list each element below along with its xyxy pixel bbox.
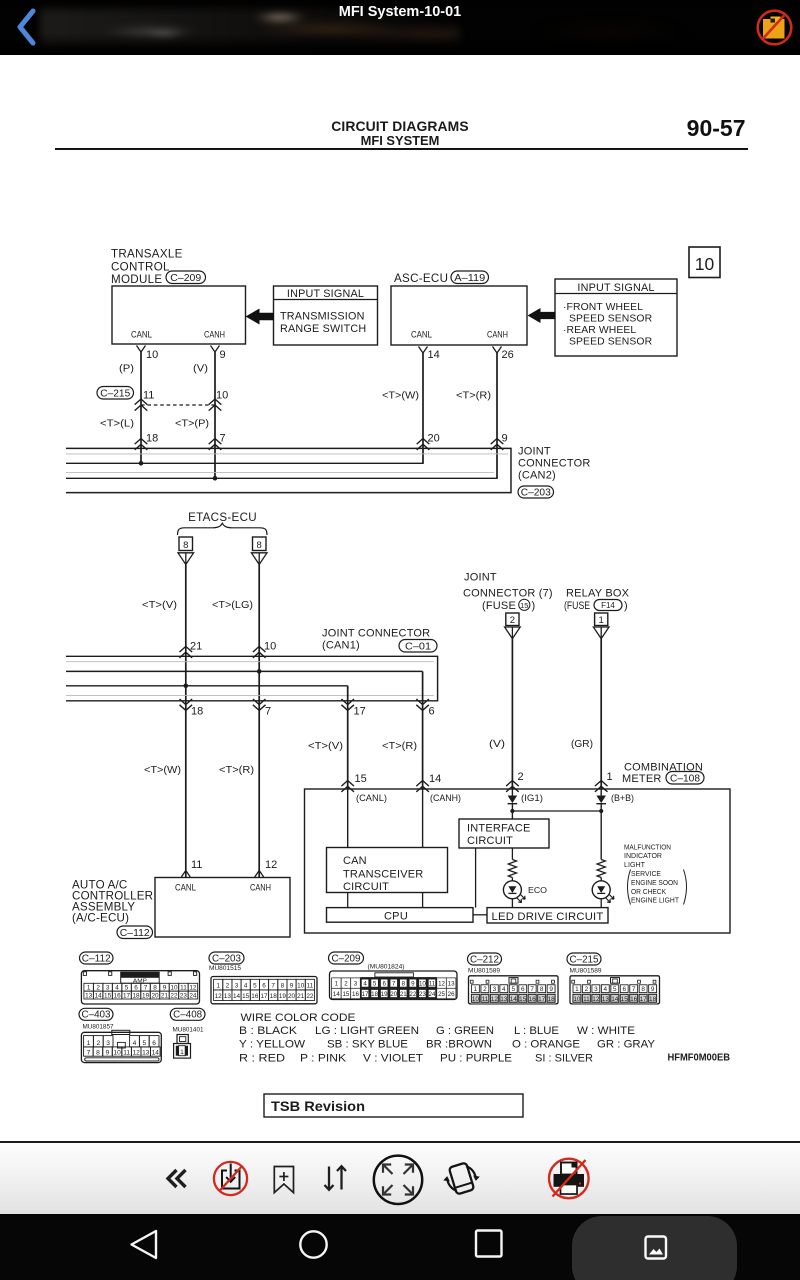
svg-text:CONNECTOR: CONNECTOR — [518, 458, 591, 470]
black arrow from TRANSMISSION RANGE SWITCH to TCM — [246, 309, 275, 325]
svg-text:1: 1 — [599, 615, 604, 626]
svg-text:JOINT: JOINT — [464, 572, 497, 584]
svg-text:1: 1 — [87, 1040, 91, 1047]
svg-text:6: 6 — [429, 705, 435, 717]
svg-text:13: 13 — [602, 996, 610, 1003]
svg-text:16: 16 — [114, 992, 122, 999]
svg-text:19: 19 — [142, 992, 150, 999]
relay box terminal 1 — [595, 613, 608, 626]
resistor (ECO led) — [508, 860, 516, 878]
svg-text:1: 1 — [474, 986, 478, 993]
svg-text:21: 21 — [400, 991, 407, 998]
svg-text:C–408: C–408 — [173, 1010, 202, 1021]
svg-text:20: 20 — [390, 991, 397, 998]
svg-text:8: 8 — [641, 986, 645, 993]
svg-text:<T>(R): <T>(R) — [219, 765, 254, 776]
svg-text:C–203: C–203 — [521, 487, 551, 498]
svg-text:12: 12 — [265, 859, 277, 871]
CPU box — [327, 908, 474, 923]
svg-text:<T>(LG): <T>(LG) — [212, 600, 253, 611]
svg-text:2: 2 — [226, 982, 230, 989]
screenshot pill button — [572, 1216, 737, 1280]
svg-text:14: 14 — [333, 991, 340, 998]
svg-text:6: 6 — [382, 981, 386, 988]
CAN1 bus line 2 (to comb meter CANH) — [66, 670, 423, 672]
svg-text:<T>(L): <T>(L) — [100, 419, 134, 430]
twisted pair marks above CAN2 bus (TCM wires) — [135, 439, 148, 445]
svg-text:26: 26 — [448, 991, 455, 998]
svg-text:<T>(W): <T>(W) — [382, 390, 419, 401]
svg-text:(FUSE: (FUSE — [564, 600, 590, 612]
svg-text:CONNECTOR (7): CONNECTOR (7) — [463, 588, 553, 600]
no-edit folder icon (top right) — [750, 2, 798, 50]
svg-text:18: 18 — [371, 991, 378, 998]
svg-text:MU801857: MU801857 — [83, 1024, 115, 1031]
svg-text:22: 22 — [306, 993, 314, 1000]
svg-text:): ) — [624, 600, 628, 612]
dashed pair line — [141, 404, 215, 406]
svg-text:C–209: C–209 — [170, 273, 201, 284]
svg-text:<T>(V): <T>(V) — [308, 741, 343, 752]
svg-text:1: 1 — [335, 981, 339, 988]
svg-text:MU801589: MU801589 — [570, 968, 603, 975]
svg-text:CAN: CAN — [343, 855, 367, 867]
svg-text:10: 10 — [170, 985, 178, 992]
wire to MIL LED — [600, 878, 602, 881]
svg-text:10: 10 — [472, 996, 480, 1003]
svg-text:CANL: CANL — [175, 883, 196, 894]
svg-text:14: 14 — [233, 993, 241, 1000]
svg-text:10: 10 — [146, 349, 158, 361]
svg-text:21: 21 — [297, 993, 305, 1000]
svg-text:4: 4 — [502, 986, 506, 993]
svg-text:PU : PURPLE: PU : PURPLE — [440, 1053, 512, 1065]
svg-text:<T>(W): <T>(W) — [144, 765, 181, 776]
svg-text:MODULE: MODULE — [111, 273, 162, 286]
svg-text:MU801589: MU801589 — [468, 968, 501, 975]
svg-text:7: 7 — [87, 1050, 91, 1057]
svg-text:17: 17 — [538, 996, 546, 1003]
svg-text:·REAR WHEEL: ·REAR WHEEL — [563, 325, 636, 336]
connector C-203 label — [209, 952, 244, 964]
svg-text:18: 18 — [146, 432, 158, 444]
svg-text:8: 8 — [402, 981, 406, 988]
svg-text:14: 14 — [152, 1050, 160, 1057]
icon: scroll up/down — [325, 1166, 347, 1190]
connector C-403 drawing — [81, 1032, 161, 1062]
svg-text:(FUSE: (FUSE — [482, 600, 516, 612]
app bar title — [0, 4, 800, 20]
svg-text:8: 8 — [183, 540, 188, 551]
connector label C-01 — [399, 640, 437, 653]
svg-text:CIRCUIT: CIRCUIT — [343, 881, 389, 893]
svg-text:4: 4 — [244, 982, 248, 989]
svg-text:F14: F14 — [601, 601, 615, 610]
svg-text:16: 16 — [352, 991, 359, 998]
svg-text:(A/C-ECU): (A/C-ECU) — [72, 912, 129, 925]
svg-text:2: 2 — [96, 1040, 100, 1047]
svg-text:9: 9 — [651, 986, 655, 993]
svg-text:11: 11 — [307, 982, 314, 989]
wire to ECO LED — [511, 878, 513, 881]
svg-text:(V): (V) — [489, 739, 505, 750]
svg-text:3: 3 — [106, 985, 110, 992]
app bar back chevron — [0, 0, 60, 55]
INTERFACE CIRCUIT box — [459, 819, 549, 848]
wire IG1 to interface circuit — [511, 804, 513, 819]
svg-text:JOINT: JOINT — [518, 446, 551, 458]
svg-text:INDICATOR: INDICATOR — [624, 851, 662, 860]
svg-text:(CANH): (CANH) — [430, 793, 461, 803]
svg-text:(CAN1): (CAN1) — [322, 640, 360, 652]
svg-text:WIRE COLOR CODE: WIRE COLOR CODE — [241, 1012, 356, 1024]
svg-text:V : VIOLET: V : VIOLET — [363, 1053, 423, 1065]
connector label C-203 — [518, 486, 554, 498]
svg-text:16: 16 — [529, 996, 537, 1003]
CAN2 bus line 2 (to ASC CANL) — [66, 462, 424, 464]
svg-text:(MU801824): (MU801824) — [368, 964, 405, 971]
svg-text:MU801515: MU801515 — [209, 965, 242, 972]
svg-text:INTERFACE: INTERFACE — [467, 823, 531, 835]
svg-text:1: 1 — [607, 771, 613, 783]
svg-text:18: 18 — [132, 992, 140, 999]
svg-text:25: 25 — [438, 991, 445, 998]
svg-text:(GR): (GR) — [571, 739, 593, 750]
svg-text:RANGE SWITCH: RANGE SWITCH — [280, 323, 366, 335]
svg-text:INPUT SIGNAL: INPUT SIGNAL — [577, 282, 654, 294]
svg-text:17: 17 — [640, 996, 648, 1003]
svg-text:9: 9 — [411, 981, 415, 988]
icon: add bookmark — [274, 1167, 293, 1193]
svg-text:7: 7 — [632, 986, 636, 993]
svg-text:A–119: A–119 — [454, 273, 485, 284]
svg-text:19: 19 — [279, 993, 287, 1000]
svg-text:20: 20 — [288, 993, 296, 1000]
wire: TCM CANL pin 10 — [137, 346, 146, 353]
wire ECO LED to LED drive — [511, 899, 513, 908]
svg-text:(CANL): (CANL) — [356, 793, 387, 803]
TSB Revision box — [264, 1094, 523, 1117]
svg-text:ETACS-ECU: ETACS-ECU — [188, 511, 257, 524]
svg-text:6: 6 — [622, 986, 626, 993]
svg-text:10: 10 — [264, 640, 276, 652]
svg-text:5: 5 — [125, 985, 129, 992]
svg-text:2: 2 — [518, 771, 524, 783]
svg-text:17: 17 — [260, 993, 268, 1000]
wire: ASC CANH pin 26 — [493, 347, 502, 354]
svg-text:23: 23 — [180, 992, 188, 999]
connector C-112 label — [80, 952, 114, 964]
svg-text:11: 11 — [191, 859, 202, 871]
connector C-403 label — [79, 1008, 113, 1020]
svg-text:15: 15 — [342, 991, 349, 998]
wire B+B down — [600, 804, 602, 860]
icon: print disabled — [549, 1159, 589, 1199]
svg-text:3: 3 — [493, 986, 497, 993]
svg-text:3: 3 — [106, 1040, 110, 1047]
svg-text:23: 23 — [419, 991, 426, 998]
svg-text:C–212: C–212 — [470, 954, 499, 965]
svg-text:5: 5 — [373, 981, 377, 988]
connector label C-112 — [117, 926, 153, 939]
nav back triangle — [132, 1231, 157, 1258]
svg-text:G : GREEN: G : GREEN — [436, 1025, 494, 1037]
junction: ETACS CANH wire to bus line2 — [257, 669, 262, 674]
svg-text:13: 13 — [142, 1050, 150, 1057]
svg-text:19: 19 — [381, 991, 388, 998]
svg-text:16: 16 — [251, 993, 259, 1000]
svg-text:21: 21 — [161, 992, 169, 999]
wire: fuse 15 to combination meter IG1 — [511, 639, 513, 789]
svg-text:24: 24 — [429, 991, 436, 998]
LED DRIVE CIRCUIT box — [487, 908, 608, 923]
page reference box 10 — [689, 247, 720, 278]
svg-text:ENGINE SOON: ENGINE SOON — [631, 878, 678, 887]
svg-text:<T>(R): <T>(R) — [382, 741, 417, 752]
svg-text:O : ORANGE: O : ORANGE — [512, 1039, 580, 1051]
svg-text:18: 18 — [270, 993, 278, 1000]
svg-text:4: 4 — [115, 985, 119, 992]
svg-text:14: 14 — [611, 996, 619, 1003]
connector C-215 drawing — [570, 976, 660, 1004]
svg-text:P : PINK: P : PINK — [300, 1053, 347, 1065]
svg-text:9: 9 — [220, 349, 226, 361]
svg-text:2: 2 — [585, 986, 589, 993]
svg-text:11: 11 — [429, 981, 436, 988]
svg-text:C–209: C–209 — [332, 953, 361, 964]
svg-text:5: 5 — [613, 986, 617, 993]
svg-text:15: 15 — [520, 601, 528, 610]
svg-text:20: 20 — [428, 432, 440, 444]
svg-text:26: 26 — [502, 349, 514, 361]
svg-text:ASC-ECU: ASC-ECU — [394, 272, 448, 285]
svg-text:6: 6 — [152, 1040, 156, 1047]
icon: fit/expand — [374, 1156, 422, 1204]
svg-text:2: 2 — [510, 615, 515, 626]
svg-text:14: 14 — [428, 349, 440, 361]
svg-text:10: 10 — [113, 1050, 121, 1057]
wire: TCM CANH pin 9 — [211, 346, 220, 353]
svg-text:5: 5 — [142, 1040, 146, 1047]
wire CPU to LED drive — [473, 914, 487, 916]
svg-text:6: 6 — [134, 985, 138, 992]
svg-text:4: 4 — [133, 1040, 137, 1047]
connector C-408 label — [170, 1008, 205, 1020]
ETACS terminal 8 (right) — [253, 537, 267, 551]
svg-text:8: 8 — [281, 982, 285, 989]
wire: ETACS CANH down to A/C ECU (net CAN1-H) — [258, 565, 260, 878]
connector C-212 label — [468, 953, 502, 965]
svg-text:3: 3 — [594, 986, 598, 993]
svg-text:11: 11 — [123, 1050, 130, 1057]
TCM box (transaxle control module) U-TCM — [112, 286, 246, 344]
svg-text:22: 22 — [170, 992, 178, 999]
svg-text:22: 22 — [409, 991, 416, 998]
junction: TCM CANH to bus — [213, 476, 218, 481]
svg-text:13: 13 — [500, 996, 508, 1003]
svg-text:5: 5 — [511, 986, 515, 993]
svg-text:(CAN2): (CAN2) — [518, 470, 556, 482]
svg-text:BR :BROWN: BR :BROWN — [426, 1039, 492, 1051]
svg-text:10: 10 — [419, 981, 426, 988]
joint connector 7 terminal 2 — [506, 613, 519, 626]
svg-text:(IG1): (IG1) — [521, 793, 543, 803]
svg-text:): ) — [532, 600, 536, 612]
svg-text:SPEED SENSOR: SPEED SENSOR — [569, 314, 653, 325]
wire: fuse F14 to combination meter B+B — [600, 639, 602, 789]
wire: bus to combination meter CANH — [422, 671, 424, 789]
svg-text:9: 9 — [290, 982, 294, 989]
INPUT SIGNAL callout box 1 — [274, 286, 378, 345]
svg-text:8: 8 — [540, 986, 544, 993]
svg-text:C–215: C–215 — [570, 954, 599, 965]
screenshot image icon — [646, 1237, 667, 1259]
svg-text:CANH: CANH — [487, 330, 508, 341]
svg-text:CANH: CANH — [250, 883, 271, 894]
svg-text:20: 20 — [151, 992, 159, 999]
svg-text:C–403: C–403 — [82, 1010, 111, 1021]
svg-text:CPU: CPU — [384, 910, 408, 922]
svg-text:15: 15 — [621, 996, 629, 1003]
svg-text:11: 11 — [180, 985, 187, 992]
svg-text:1: 1 — [180, 1049, 184, 1056]
svg-text:W : WHITE: W : WHITE — [577, 1025, 635, 1037]
svg-text:15: 15 — [519, 996, 527, 1003]
svg-text:10: 10 — [573, 996, 581, 1003]
svg-text:SI : SILVER: SI : SILVER — [535, 1053, 593, 1065]
svg-text:C–215: C–215 — [100, 388, 130, 399]
connector C-209 label — [329, 952, 364, 964]
svg-text:(V): (V) — [193, 364, 208, 375]
svg-text:GR : GRAY: GR : GRAY — [597, 1039, 655, 1051]
svg-text:<T>(R): <T>(R) — [456, 390, 491, 401]
svg-text:10: 10 — [216, 389, 228, 401]
svg-text:CONTROL: CONTROL — [111, 261, 170, 274]
CAN1 bus line 3 (to comb meter CANL) — [66, 685, 348, 687]
wires transceiver to CPU — [347, 893, 349, 908]
svg-text:MALFUNCTION: MALFUNCTION — [624, 842, 671, 851]
svg-text:2: 2 — [344, 981, 348, 988]
CAN1 joint connector bus: outer loop wire — [66, 656, 438, 701]
wire: ETACS CANL down to A/C ECU (net CAN1-L) — [185, 565, 187, 878]
svg-text:LED DRIVE CIRCUIT: LED DRIVE CIRCUIT — [492, 911, 604, 923]
diode on IG1 wire — [511, 789, 513, 796]
connector C-112 drawing — [81, 971, 199, 1004]
svg-text:18: 18 — [191, 705, 203, 717]
thin pair lines — [66, 661, 434, 663]
svg-text:13: 13 — [224, 993, 232, 1000]
svg-text:17: 17 — [354, 705, 366, 717]
junction: ETACS CANL wire to bus line3 — [184, 684, 189, 689]
combination meter box U-METER — [305, 789, 731, 933]
connector label C-209 — [166, 271, 206, 284]
svg-text:4: 4 — [363, 981, 367, 988]
LED MIL — [592, 881, 610, 899]
svg-text:3: 3 — [235, 982, 239, 989]
svg-text:21: 21 — [190, 640, 202, 652]
svg-text:12: 12 — [133, 1050, 141, 1057]
svg-text:8: 8 — [153, 985, 157, 992]
icon: save disabled — [214, 1162, 247, 1195]
svg-text:7: 7 — [530, 986, 534, 993]
resistor (MIL led) — [597, 860, 605, 878]
svg-text:SERVICE: SERVICE — [631, 869, 661, 878]
svg-text:9: 9 — [106, 1050, 110, 1057]
twisted pair marks above CAN1 bus — [180, 646, 193, 652]
crosslink IG1/B+B to interface — [512, 810, 601, 812]
svg-text:INPUT SIGNAL: INPUT SIGNAL — [287, 288, 364, 300]
svg-text:R : RED: R : RED — [239, 1053, 285, 1065]
svg-text:11: 11 — [583, 996, 590, 1003]
svg-text:MU801401: MU801401 — [173, 1026, 205, 1033]
ETACS terminal 8 (left) — [179, 537, 193, 551]
svg-text:7: 7 — [144, 985, 148, 992]
svg-text:7: 7 — [265, 705, 271, 717]
svg-text:15: 15 — [104, 992, 112, 999]
svg-text:1: 1 — [575, 986, 579, 993]
svg-text:2: 2 — [96, 985, 100, 992]
svg-text:17: 17 — [123, 992, 131, 999]
svg-text:11: 11 — [143, 389, 154, 401]
svg-text:<T>(V): <T>(V) — [142, 600, 177, 611]
svg-text:ENGINE LIGHT: ENGINE LIGHT — [631, 896, 679, 905]
CAN TRANSCEIVER CIRCUIT box — [327, 848, 448, 893]
svg-text:12: 12 — [592, 996, 600, 1003]
connector C-212 drawing — [469, 976, 559, 1004]
svg-text:ECO: ECO — [528, 886, 547, 895]
svg-text:TRANSMISSION: TRANSMISSION — [280, 311, 365, 323]
svg-text:4: 4 — [604, 986, 608, 993]
svg-text:(B+B): (B+B) — [611, 793, 634, 803]
wires meter CANL/CANH into transceiver — [347, 789, 349, 848]
icon: rotate device — [440, 1160, 483, 1197]
black arrow from wheel speed sensors to ASC-ECU — [528, 308, 556, 323]
thin pair lines — [66, 453, 508, 455]
A/C ECU box — [155, 878, 290, 938]
svg-text:RELAY BOX: RELAY BOX — [566, 588, 630, 600]
svg-text:14: 14 — [510, 996, 518, 1003]
svg-text:LG : LIGHT GREEN: LG : LIGHT GREEN — [315, 1025, 419, 1037]
svg-text:LIGHT: LIGHT — [624, 860, 645, 869]
svg-text:6: 6 — [262, 982, 266, 989]
nav recents square — [476, 1231, 502, 1257]
connector C-408 drawing — [177, 1035, 188, 1044]
svg-text:2: 2 — [483, 986, 487, 993]
svg-text:L : BLUE: L : BLUE — [514, 1025, 559, 1037]
svg-text:13: 13 — [85, 992, 93, 999]
svg-text:JOINT CONNECTOR: JOINT CONNECTOR — [322, 628, 430, 640]
CAN2 bus line 3 (to ASC CANH) — [66, 477, 498, 479]
svg-text:12: 12 — [215, 993, 223, 1000]
LED ECO — [503, 881, 521, 899]
wire: ASC CANL pin 14 — [419, 347, 428, 354]
svg-text:METER: METER — [622, 773, 662, 785]
svg-text:24: 24 — [189, 992, 197, 999]
svg-text:15: 15 — [355, 773, 367, 785]
svg-text:CANL: CANL — [411, 330, 432, 341]
brace over ETACS terminals — [178, 523, 268, 535]
svg-text:OR CHECK: OR CHECK — [631, 887, 666, 896]
svg-text:SPEED SENSOR: SPEED SENSOR — [569, 337, 653, 348]
wire interface to resistor — [511, 848, 513, 860]
svg-text:3: 3 — [354, 981, 358, 988]
ASC-ECU box U-ASC — [391, 286, 527, 345]
twisted pair marks at C-215 crossing — [135, 399, 148, 405]
connector label C-215 (intermediate) — [97, 387, 134, 400]
connector C-203 drawing — [211, 977, 317, 1004]
svg-text:1: 1 — [216, 982, 220, 989]
svg-text:<T>(P): <T>(P) — [175, 419, 209, 430]
